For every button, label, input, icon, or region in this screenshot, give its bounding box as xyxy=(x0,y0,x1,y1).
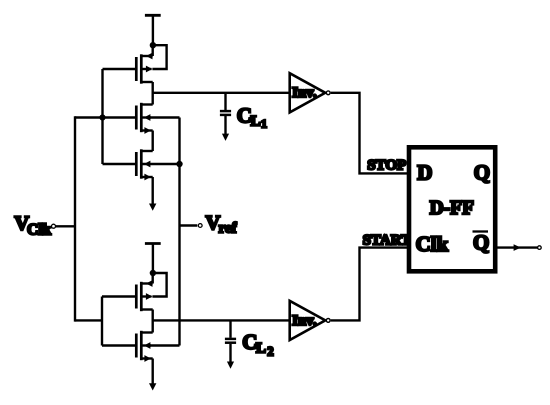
wire M4 gate xyxy=(102,295,136,297)
svg-text:Inv.: Inv. xyxy=(292,85,317,101)
wire lower gate bus vertical xyxy=(101,297,103,346)
wire M5 body to vref trunk xyxy=(150,344,180,346)
wire M5 gate xyxy=(102,344,136,346)
transistor M3 (NMOS) xyxy=(136,149,179,180)
svg-text:D: D xyxy=(417,160,432,184)
wire Qbar output xyxy=(495,246,538,248)
supply rail top xyxy=(145,14,161,17)
ground arrow lower (tail sink) xyxy=(149,383,156,390)
svg-text:2: 2 xyxy=(267,345,273,359)
svg-text:Q: Q xyxy=(473,231,489,255)
svg-text:Inv.: Inv. xyxy=(292,313,317,329)
inverter Inv2 xyxy=(290,301,330,340)
wire M2 source to M3 drain xyxy=(151,131,153,152)
wire Vref tap xyxy=(180,224,198,226)
svg-text:L: L xyxy=(256,341,266,357)
wire M1 drain down to node1 xyxy=(151,82,153,93)
svg-text:L: L xyxy=(251,113,261,129)
svg-text:Clk: Clk xyxy=(416,232,449,256)
transistor M4 (PMOS, diode body tie) xyxy=(136,280,152,311)
wire VClk trunk vertical xyxy=(74,116,76,321)
wire supply top to M1 xyxy=(152,15,154,46)
wire VClk terminal lead xyxy=(56,225,76,227)
wire M5 source down xyxy=(151,359,153,384)
wire M4 body loop xyxy=(152,273,166,297)
wire node2 row to inverter xyxy=(152,319,290,321)
wire inv2 output to DFF Clk (START) xyxy=(331,248,407,321)
wire M2 body to vref trunk xyxy=(150,116,180,118)
wire M4 source up xyxy=(151,273,153,284)
wire trunk to lower gate bus xyxy=(75,319,102,321)
capacitor CL2 xyxy=(225,320,236,368)
svg-text:D-FF: D-FF xyxy=(430,198,474,219)
junction node M4 source/body xyxy=(150,270,156,276)
transistor M5 (NMOS) xyxy=(136,331,152,362)
wire M3 source down xyxy=(151,177,153,204)
wire M4 drain down to node2 xyxy=(151,310,153,321)
junction node M1 source/body xyxy=(150,42,156,48)
capacitor CL1 xyxy=(220,93,231,141)
terminal VClk xyxy=(52,224,56,228)
inverter Inv1 xyxy=(290,73,330,112)
terminal output xyxy=(538,246,542,250)
ground arrow upper (tail sink) xyxy=(149,204,156,211)
wire M5 drain up to node2 xyxy=(151,320,153,332)
terminal Vref xyxy=(198,224,202,228)
svg-text:Clk: Clk xyxy=(27,222,52,239)
wire gate bus vertical upper xyxy=(101,69,103,164)
junction node gate bus xyxy=(99,114,105,120)
wire M2 gate xyxy=(103,116,137,118)
wire M3 gate xyxy=(103,163,137,165)
svg-text:START: START xyxy=(363,233,411,249)
supply rail bottom xyxy=(145,242,161,245)
wire M1 body loop xyxy=(152,45,166,69)
wire supply bottom to M4 xyxy=(152,244,154,275)
wire M2 drain up to node1 xyxy=(151,93,153,105)
svg-text:1: 1 xyxy=(261,116,267,130)
wire inv1 output to DFF D (STOP) xyxy=(331,93,407,174)
junction node M3 body xyxy=(176,161,182,167)
svg-text:Q: Q xyxy=(474,160,490,184)
transistor M1 (PMOS, diode body tie) xyxy=(136,53,152,84)
wire M1 gate xyxy=(103,68,137,70)
arrowhead Qbar output xyxy=(514,244,521,251)
transistor M2 (NMOS) xyxy=(136,103,152,134)
wire gate bus to VClk trunk xyxy=(75,116,103,118)
wire vref trunk vertical xyxy=(178,118,180,346)
wire M1 source up xyxy=(151,45,153,56)
svg-text:ref: ref xyxy=(219,220,238,236)
wire node1 row to inverter xyxy=(152,92,290,94)
svg-text:STOP: STOP xyxy=(367,157,406,173)
D flip-flop U1 box xyxy=(409,147,495,271)
